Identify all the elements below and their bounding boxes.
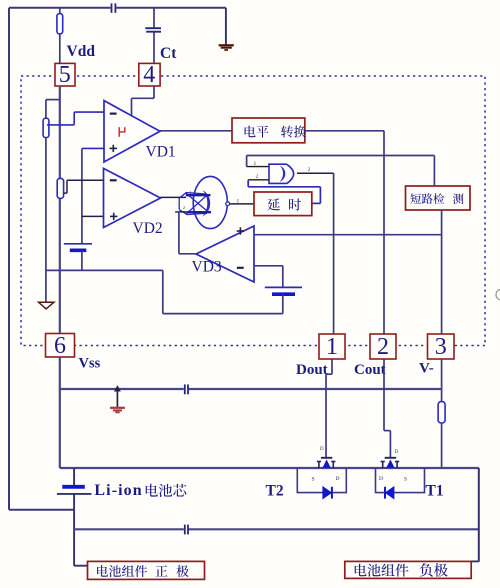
wire bottom rail xyxy=(74,528,184,530)
capacitor C3 in bottom rail xyxy=(184,525,186,535)
IC dashed boundary box xyxy=(21,76,485,346)
transistor T1 MOSFET xyxy=(385,457,396,459)
svg-text:1: 1 xyxy=(254,161,257,167)
transistor T2 MOSFET xyxy=(321,457,332,459)
svg-text:3: 3 xyxy=(435,334,447,360)
pin box 1 xyxy=(319,334,345,359)
svg-text:T1: T1 xyxy=(426,482,444,499)
svg-text:D: D xyxy=(395,450,399,455)
block short-circuit-detect 短路检测 xyxy=(406,186,471,210)
battery Li-ion cell xyxy=(73,468,75,485)
resistor R3 on V- line xyxy=(438,402,445,423)
T2 body diode box xyxy=(297,468,346,493)
svg-text:Cout: Cout xyxy=(354,362,386,378)
ground arrow left xyxy=(39,302,54,309)
svg-text:2: 2 xyxy=(377,334,389,360)
ground symbol bottom-left xyxy=(116,390,118,407)
svg-text:1: 1 xyxy=(237,198,240,204)
wire VD3 output xyxy=(179,253,196,255)
svg-text:D: D xyxy=(379,476,383,482)
svg-text:Dout: Dout xyxy=(296,362,328,378)
svg-text:Li-ion: Li-ion xyxy=(94,482,142,499)
wire VD3 output to oscillator input xyxy=(175,211,186,213)
wire VD2 inverting input from R2 tap xyxy=(64,192,67,194)
svg-text:Vss: Vss xyxy=(79,356,101,372)
wire pin4 to VD1 xyxy=(153,86,155,98)
svg-text:S: S xyxy=(312,477,315,483)
pin box 4 xyxy=(139,63,160,86)
svg-text:Ct: Ct xyxy=(160,45,177,62)
wire source rail xyxy=(60,467,479,469)
resistor R1 xyxy=(45,100,47,119)
op-amp comparator VD3 xyxy=(196,226,254,282)
wire Cout to T1 gate xyxy=(383,359,385,431)
battery reference B1 xyxy=(64,243,92,245)
wire VD2 output xyxy=(161,196,187,198)
wire delay feedback loop xyxy=(247,180,249,187)
diode of T2 xyxy=(323,487,331,499)
svg-text:S: S xyxy=(404,477,407,483)
block delay 延时 xyxy=(254,192,312,216)
svg-text:VD1: VD1 xyxy=(146,144,176,161)
wire VD2 non-inverting input xyxy=(82,215,104,217)
oscillator gate body xyxy=(179,193,208,215)
oscillator gate ellipse xyxy=(193,176,227,228)
capacitor C2 in Vss rail xyxy=(184,384,186,394)
wire left outer loop xyxy=(8,8,10,510)
pin box 3 xyxy=(428,334,455,359)
svg-text:2: 2 xyxy=(256,174,259,180)
wire short-circuit-detect to V- pin xyxy=(441,210,443,334)
wire short-circuit detect to gate xyxy=(247,155,435,157)
wire VD1 output xyxy=(160,130,232,132)
gate input stub 2 xyxy=(248,179,269,181)
capacitor C1 in top rail xyxy=(111,3,113,12)
svg-text:Vdd: Vdd xyxy=(67,43,96,60)
wire Dout to T2 gate xyxy=(331,359,333,374)
wire Vss reference rail xyxy=(46,269,163,271)
diode of T1 xyxy=(386,487,394,499)
wire top supply rail xyxy=(9,7,110,9)
svg-text:1: 1 xyxy=(326,334,338,360)
gate input stub 1 xyxy=(247,166,269,168)
battery pack positive terminal box xyxy=(88,561,205,579)
svg-text:V-: V- xyxy=(419,361,434,377)
op-amp comparator VD2 xyxy=(104,168,161,227)
block level-shift 电平转换 xyxy=(232,118,305,143)
wire Vss horizontal rail xyxy=(60,388,184,390)
svg-text:5: 5 xyxy=(59,62,71,88)
svg-text:T2: T2 xyxy=(266,482,284,499)
wire V- lead xyxy=(441,359,443,402)
oscillator output bubble xyxy=(226,202,230,206)
svg-text:2: 2 xyxy=(308,167,311,173)
wire Ct branch xyxy=(153,8,155,28)
T1 body diode box xyxy=(376,468,425,493)
battery reference B2 xyxy=(265,286,302,288)
wire VD1 non-inverting input / reference rail xyxy=(82,147,104,149)
watermark xyxy=(496,289,500,300)
svg-text:6: 6 xyxy=(54,333,66,359)
battery pack negative terminal box xyxy=(345,561,471,578)
wire to positive terminal box xyxy=(74,565,87,567)
svg-text:VD2: VD2 xyxy=(133,220,163,237)
svg-text:4: 4 xyxy=(143,62,155,88)
svg-text:D: D xyxy=(320,447,324,452)
wire VD1 inverting input from R1 tap xyxy=(47,124,74,126)
resistor R2 xyxy=(57,178,63,198)
svg-text:D: D xyxy=(336,476,340,482)
wire VD3 plus input sense line xyxy=(254,234,442,236)
hysteresis mark in VD1 xyxy=(119,127,125,137)
wire gate output to Dout xyxy=(297,172,334,174)
pin box 6 xyxy=(46,334,75,358)
wire pin6 down xyxy=(59,357,61,468)
wire VD3 minus input xyxy=(254,265,283,267)
resistor on Vdd line xyxy=(59,8,61,14)
capacitor Ct xyxy=(145,27,161,29)
wire to top-right ground xyxy=(225,8,227,45)
svg-text:VD3: VD3 xyxy=(192,259,222,276)
wire pin5 to pin6 vertical xyxy=(59,86,61,334)
wire right outer xyxy=(478,468,480,562)
ground top-right earth symbol xyxy=(219,44,234,46)
logic gate G1 xyxy=(269,164,287,183)
wire level-shift to Cout xyxy=(305,130,384,132)
pin box 5 xyxy=(55,63,75,86)
op-amp comparator VD1 xyxy=(104,101,160,162)
wire oscillator to delay block xyxy=(230,203,254,205)
pin box 2 xyxy=(370,334,396,359)
wire branch to R1 xyxy=(46,99,60,101)
